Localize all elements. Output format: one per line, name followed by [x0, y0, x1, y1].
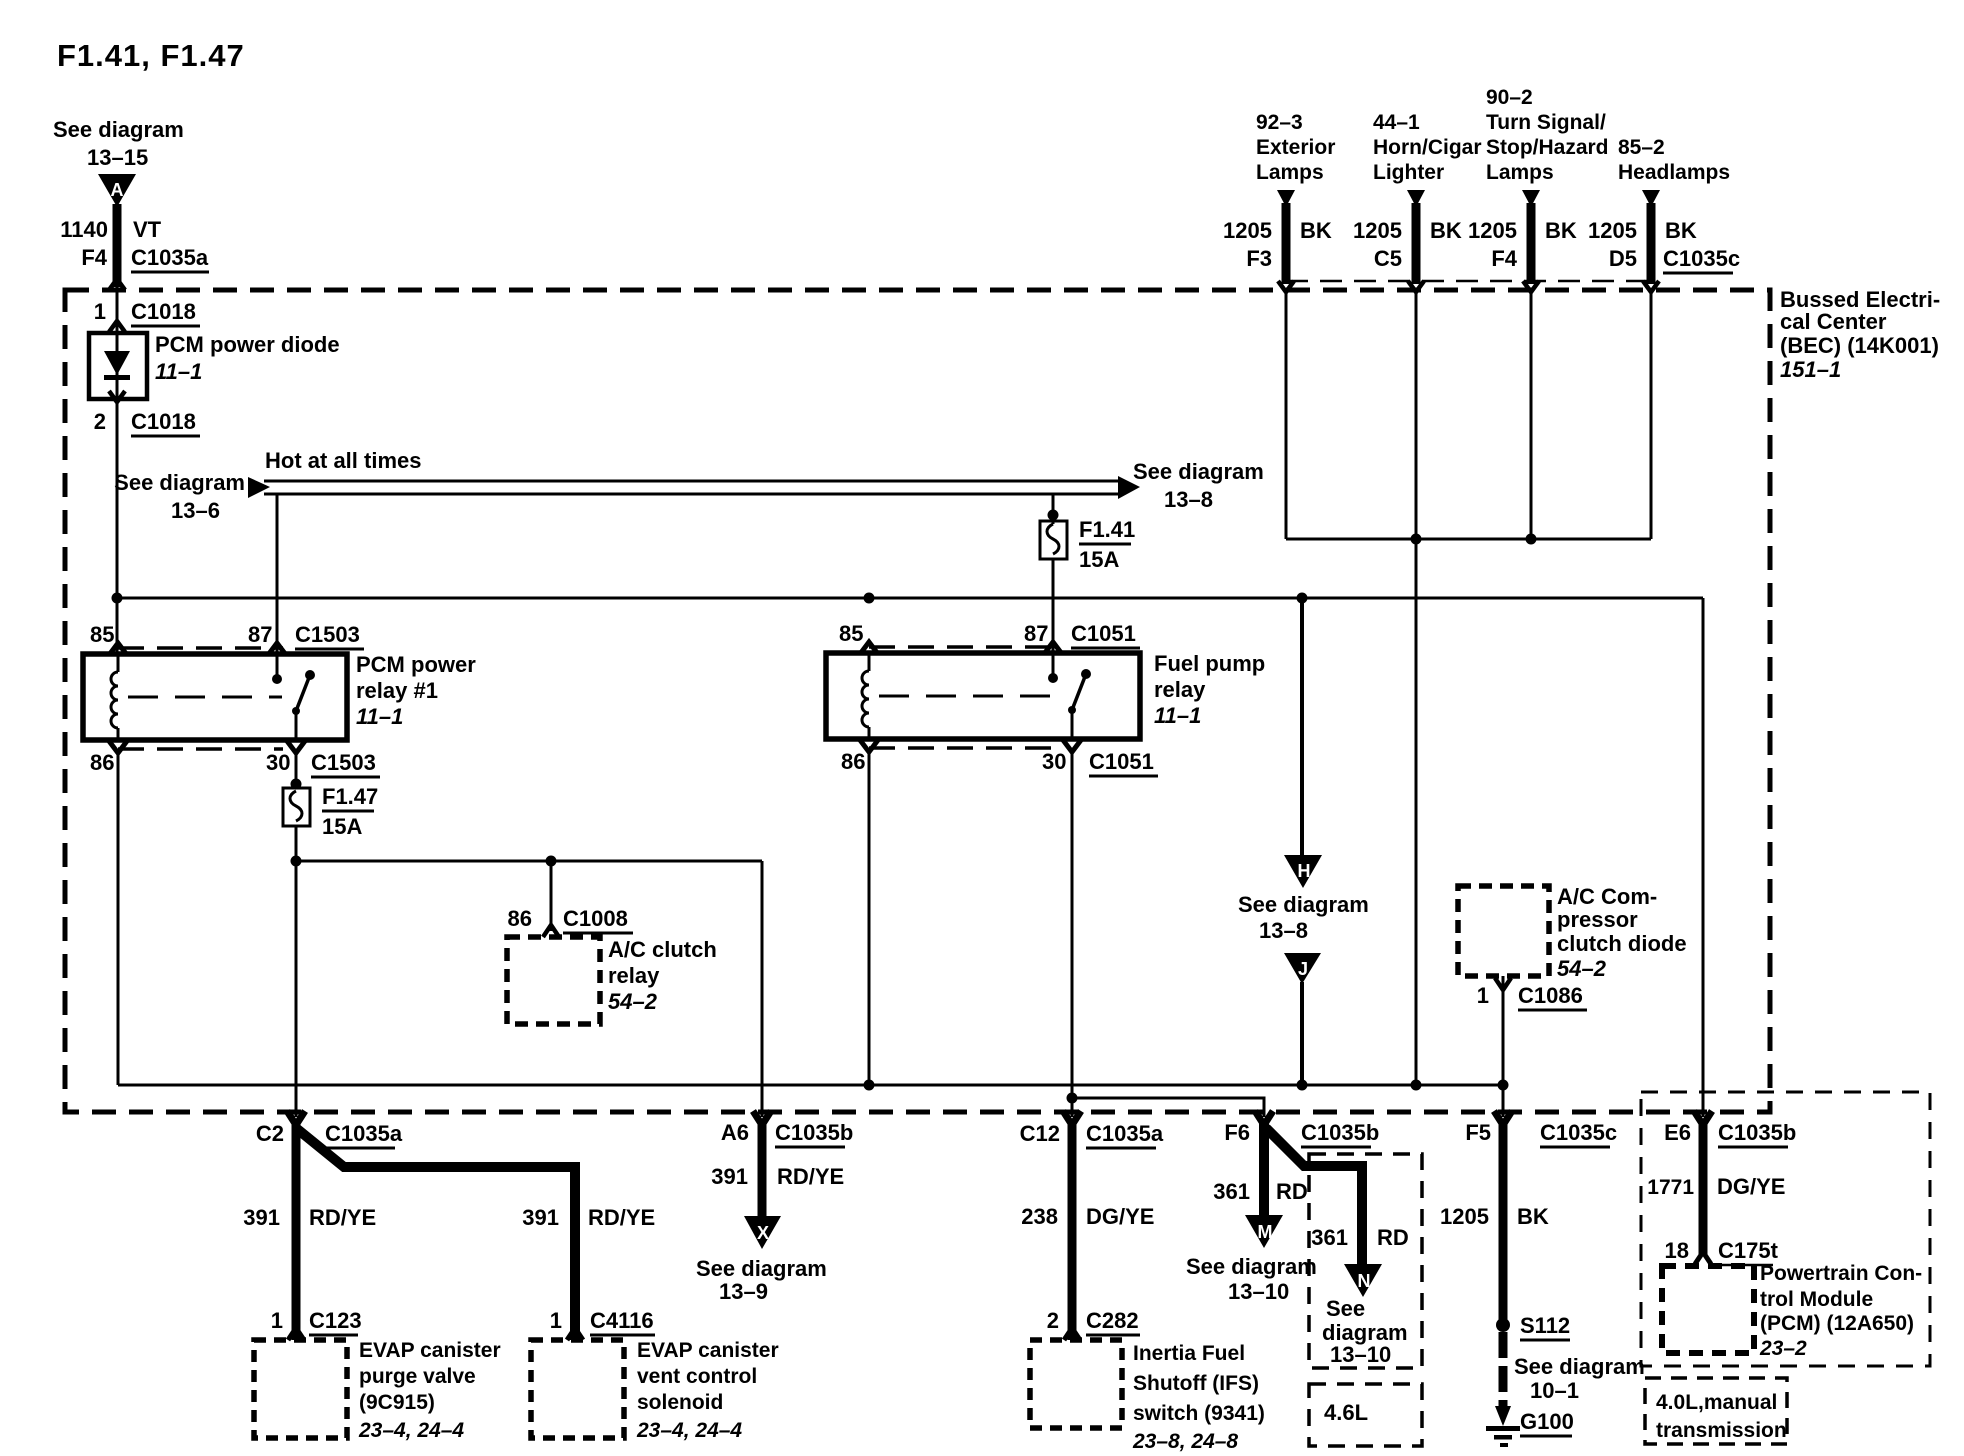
svg-text:F5: F5 — [1465, 1120, 1491, 1145]
connector arrow H — [1284, 855, 1322, 888]
svg-text:(9C915): (9C915) — [359, 1391, 435, 1414]
svg-text:relay: relay — [608, 963, 660, 988]
svg-text:F4: F4 — [81, 245, 107, 270]
relay 87 contact stub — [1052, 653, 1055, 678]
svg-text:391: 391 — [711, 1164, 748, 1189]
svg-text:BK: BK — [1665, 218, 1697, 243]
pin 86 arrow — [109, 741, 127, 753]
svg-text:D5: D5 — [1609, 246, 1637, 271]
svg-text:C1035a: C1035a — [1086, 1121, 1164, 1146]
thick wire C2 down to C123 — [292, 1122, 301, 1340]
svg-text:C5: C5 — [1374, 246, 1402, 271]
svg-text:F1.41: F1.41 — [1079, 517, 1135, 542]
svg-text:23–4, 24–4: 23–4, 24–4 — [636, 1419, 742, 1442]
svg-text:C1018: C1018 — [131, 299, 196, 324]
pin 1 arrow — [109, 321, 125, 332]
pin 87 arrow — [268, 643, 286, 655]
node BK join at feed 3 — [1526, 534, 1537, 545]
svg-text:361: 361 — [1213, 1179, 1250, 1204]
node fuel relay coil tap — [864, 593, 875, 604]
pin 85 arrow — [860, 642, 878, 654]
VPWR corner down to E6 — [1702, 598, 1705, 1117]
svg-text:391: 391 — [243, 1205, 280, 1230]
node junction diode/VPWR line — [112, 593, 123, 604]
thick wire A6 to X — [758, 1122, 767, 1218]
svg-text:relay #1: relay #1 — [356, 678, 438, 703]
node H arrow tap — [1297, 593, 1308, 604]
svg-text:Inertia Fuel: Inertia Fuel — [1133, 1342, 1245, 1365]
svg-text:RD/YE: RD/YE — [309, 1205, 376, 1230]
fuse F1.41 — [1040, 521, 1067, 559]
wire fuel relay 86 to ground line — [868, 752, 871, 1085]
svg-text:See: See — [1326, 1296, 1365, 1321]
A/C clutch relay pin 86 arrow — [543, 925, 559, 937]
VPWR horizontal wire — [117, 597, 1703, 600]
svg-text:switch (9341): switch (9341) — [1133, 1402, 1265, 1425]
svg-text:A: A — [111, 180, 124, 200]
wire BK feed 2 inside BEC down to ground line — [1415, 292, 1418, 1085]
exit arrow C12 — [1063, 1111, 1081, 1125]
svg-text:13–8: 13–8 — [1164, 487, 1213, 512]
svg-text:C282: C282 — [1086, 1308, 1139, 1333]
pin 18 arrow C175t — [1695, 1252, 1711, 1264]
pin 2 arrow C282 — [1064, 1328, 1080, 1340]
svg-text:A/C clutch: A/C clutch — [608, 937, 717, 962]
svg-text:13–6: 13–6 — [171, 498, 220, 523]
svg-text:151–1: 151–1 — [1780, 357, 1841, 382]
svg-text:238: 238 — [1021, 1204, 1058, 1229]
svg-text:H: H — [1298, 861, 1311, 881]
svg-text:C1035c: C1035c — [1540, 1120, 1617, 1145]
svg-text:relay: relay — [1154, 677, 1206, 702]
branch wire to A/C clutch relay and A6 — [296, 860, 762, 863]
svg-text:13–10: 13–10 — [1228, 1279, 1289, 1304]
svg-text:11–1: 11–1 — [1154, 703, 1201, 728]
svg-text:86: 86 — [841, 749, 865, 774]
svg-text:vent control: vent control — [637, 1365, 757, 1388]
svg-text:VT: VT — [133, 217, 162, 242]
svg-text:BK: BK — [1545, 218, 1577, 243]
node J wire on ground line — [1297, 1080, 1308, 1091]
splice S112 — [1496, 1318, 1510, 1332]
svg-text:Stop/Hazard: Stop/Hazard — [1486, 136, 1609, 159]
svg-text:C1018: C1018 — [131, 409, 196, 434]
svg-text:1140: 1140 — [60, 217, 108, 242]
svg-text:C1086: C1086 — [1518, 983, 1583, 1008]
svg-text:11–1: 11–1 — [356, 704, 403, 729]
svg-text:1771: 1771 — [1647, 1176, 1694, 1199]
wire BK feed 1 inside BEC — [1285, 292, 1288, 539]
svg-text:4.6L: 4.6L — [1324, 1400, 1368, 1425]
svg-text:BK: BK — [1430, 218, 1462, 243]
thick wire F6 to M — [1259, 1122, 1269, 1218]
wire 1205 BK #3 — [1522, 190, 1540, 207]
svg-text:85: 85 — [90, 622, 114, 647]
wire 1205 BK #4 — [1642, 190, 1660, 207]
svg-text:1: 1 — [94, 299, 106, 324]
svg-text:F4: F4 — [1491, 246, 1517, 271]
svg-text:(BEC) (14K001): (BEC) (14K001) — [1780, 333, 1939, 358]
svg-text:87: 87 — [1024, 621, 1048, 646]
wire diode to relay 85 — [116, 399, 119, 654]
svg-text:X: X — [757, 1223, 769, 1243]
diode symbol — [116, 333, 119, 399]
svg-text:1: 1 — [1477, 983, 1489, 1008]
wire relay 30 to fuse F1.47 — [295, 753, 298, 788]
hot bus double line — [264, 480, 1120, 483]
pin 30 arrow — [287, 741, 305, 753]
svg-text:M: M — [1258, 1222, 1273, 1242]
fuse F1.47 — [283, 788, 310, 826]
svg-text:30: 30 — [1042, 749, 1066, 774]
svg-text:54–2: 54–2 — [608, 989, 658, 1014]
A/C Compressor clutch diode dashed box — [1458, 886, 1549, 976]
svg-text:EVAP canister: EVAP canister — [637, 1339, 779, 1362]
PCM outer dashed box — [1641, 1092, 1930, 1366]
svg-text:Lamps: Lamps — [1486, 161, 1554, 184]
svg-text:DG/YE: DG/YE — [1717, 1174, 1785, 1199]
svg-text:92–3: 92–3 — [1256, 111, 1303, 134]
relay connector C1503 top dashed line — [118, 646, 283, 650]
svg-text:86: 86 — [90, 750, 114, 775]
svg-text:C1051: C1051 — [1071, 621, 1136, 646]
svg-text:RD: RD — [1276, 1179, 1308, 1204]
wire 1205 BK #1 — [1277, 190, 1295, 207]
svg-text:C123: C123 — [309, 1308, 362, 1333]
connector arrow J — [1284, 953, 1321, 984]
svg-text:PCM power diode: PCM power diode — [155, 332, 340, 357]
wire bus to fuse F1.41 — [1052, 494, 1055, 524]
svg-text:86: 86 — [508, 906, 532, 931]
exit arrow E6 — [1694, 1111, 1712, 1125]
svg-text:C12: C12 — [1020, 1121, 1060, 1146]
pin 30 arrow — [1063, 740, 1081, 752]
svg-text:C1035a: C1035a — [325, 1121, 403, 1146]
svg-text:Horn/Cigar: Horn/Cigar — [1373, 136, 1482, 159]
svg-text:C1008: C1008 — [563, 906, 628, 931]
wire BK joining line — [1286, 538, 1651, 541]
wire fuse F1.47 down to C2 exit — [295, 826, 298, 1117]
svg-text:clutch diode: clutch diode — [1557, 931, 1687, 956]
wire down to A6 exit — [761, 861, 764, 1117]
svg-text:Lighter: Lighter — [1373, 161, 1444, 184]
svg-text:23–4, 24–4: 23–4, 24–4 — [358, 1419, 464, 1442]
wire BK feed 3 inside BEC — [1530, 292, 1533, 539]
EVAP canister vent control solenoid dashed box — [531, 1340, 624, 1438]
svg-text:11–1: 11–1 — [155, 359, 202, 384]
wire J to ground line — [1300, 982, 1304, 1085]
relay coil — [868, 653, 871, 671]
svg-text:BK: BK — [1517, 1204, 1549, 1229]
svg-text:Exterior: Exterior — [1256, 136, 1335, 159]
wire relay 86 to ground line — [117, 753, 120, 1085]
wire fuse F1.41 to fuel pump relay 87 — [1052, 559, 1055, 654]
wire fuel relay 30 down to C12 exit — [1071, 752, 1074, 1117]
thick wire C12 down to C282 — [1068, 1122, 1077, 1340]
svg-text:85–2: 85–2 — [1618, 136, 1665, 159]
svg-text:13–15: 13–15 — [87, 145, 148, 170]
svg-text:1205: 1205 — [1440, 1204, 1489, 1229]
svg-text:See diagram: See diagram — [1186, 1254, 1317, 1279]
svg-text:See diagram: See diagram — [114, 470, 245, 495]
relay connector C1503 bottom dashed line — [118, 747, 283, 751]
svg-text:pressor: pressor — [1557, 907, 1638, 932]
node diode wire on ground line — [1498, 1080, 1509, 1091]
svg-text:Hot at all times: Hot at all times — [265, 448, 421, 473]
svg-text:391: 391 — [522, 1205, 559, 1230]
svg-text:1205: 1205 — [1588, 218, 1637, 243]
ground return horizontal wire — [118, 1084, 1503, 1087]
A/C clutch relay dashed box — [507, 937, 600, 1024]
svg-text:C1051: C1051 — [1089, 749, 1154, 774]
svg-text:transmission: transmission — [1656, 1419, 1787, 1442]
pin 85 arrow — [109, 643, 127, 655]
svg-text:See diagram: See diagram — [696, 1256, 827, 1281]
node BK feed 2 on ground line — [1411, 1080, 1422, 1091]
svg-text:See diagram: See diagram — [53, 117, 184, 142]
svg-text:F1.47: F1.47 — [322, 784, 378, 809]
svg-text:F1.41, F1.47: F1.41, F1.47 — [57, 38, 245, 73]
svg-text:S112: S112 — [1520, 1313, 1570, 1338]
thick wire E6 to PCM — [1699, 1122, 1708, 1256]
relay box R2 — [826, 653, 1140, 739]
exit arrow F5 — [1494, 1111, 1512, 1125]
exit arrow F6 — [1255, 1111, 1273, 1125]
svg-text:15A: 15A — [322, 814, 362, 839]
wire 1140 VT (thick) from A to BEC — [113, 204, 122, 287]
svg-text:A/C Com-: A/C Com- — [1557, 884, 1657, 909]
relay switch arm — [1081, 669, 1091, 679]
svg-text:See diagram: See diagram — [1514, 1354, 1645, 1379]
svg-text:18: 18 — [1665, 1238, 1689, 1263]
relay connector C1051 top dashed line — [869, 645, 1060, 649]
node A/C clutch relay tap — [546, 856, 557, 867]
svg-text:Turn Signal/: Turn Signal/ — [1486, 111, 1606, 134]
connector arrow A — [98, 174, 136, 207]
svg-text:4.0L,manual: 4.0L,manual — [1656, 1391, 1777, 1414]
svg-text:solenoid: solenoid — [637, 1391, 723, 1414]
node fuel relay 86 on ground line — [864, 1080, 875, 1091]
4.0L manual transmission dashed box — [1645, 1378, 1787, 1444]
svg-text:Headlamps: Headlamps — [1618, 161, 1730, 184]
wire tap to F6 exit — [1072, 1098, 1264, 1117]
connector C1035c dashed line across feed wires — [1286, 280, 1655, 283]
BEC dashed border (Bussed Electrical Center) — [65, 290, 1770, 1112]
relay linkage dashed — [128, 696, 282, 699]
wire into diode — [116, 279, 119, 336]
svg-text:F6: F6 — [1224, 1120, 1250, 1145]
connector arrow N — [1344, 1264, 1382, 1297]
svg-text:15A: 15A — [1079, 547, 1119, 572]
wire 1205 BK #2 — [1407, 190, 1425, 207]
svg-text:87: 87 — [248, 622, 272, 647]
svg-text:13–8: 13–8 — [1259, 918, 1308, 943]
relay box R1 — [83, 654, 347, 740]
relay coil — [117, 654, 120, 672]
svg-text:C1035c: C1035c — [1663, 246, 1740, 271]
4.6L dashed box — [1309, 1384, 1422, 1446]
svg-text:23–2: 23–2 — [1759, 1337, 1807, 1360]
node BK join at feed 2 — [1411, 534, 1422, 545]
wire diode to F5 exit — [1502, 976, 1505, 1117]
svg-text:trol Module: trol Module — [1760, 1288, 1873, 1311]
svg-text:C1503: C1503 — [311, 750, 376, 775]
svg-text:N: N — [1358, 1271, 1371, 1291]
svg-text:C1035b: C1035b — [775, 1120, 853, 1145]
svg-text:10–1: 10–1 — [1530, 1378, 1579, 1403]
branch to vent solenoid: diagonal — [296, 1128, 575, 1340]
wire BK feed 4 inside BEC — [1650, 292, 1653, 539]
svg-text:EVAP canister: EVAP canister — [359, 1339, 501, 1362]
svg-text:C2: C2 — [256, 1121, 284, 1146]
svg-text:C175t: C175t — [1718, 1238, 1779, 1263]
svg-text:cal Center: cal Center — [1780, 309, 1887, 334]
svg-text:RD/YE: RD/YE — [588, 1205, 655, 1230]
exit arrow C2 — [287, 1111, 305, 1125]
relay 87 contact stub — [276, 654, 279, 679]
wire VPWR to H arrow — [1300, 598, 1304, 855]
svg-text:13–9: 13–9 — [719, 1279, 768, 1304]
svg-text:2: 2 — [1047, 1308, 1059, 1333]
svg-text:F3: F3 — [1246, 246, 1272, 271]
Inertia Fuel Shutoff switch dashed box — [1030, 1340, 1122, 1428]
svg-text:G100: G100 — [1520, 1409, 1574, 1434]
pin 1 arrow C4116 — [567, 1328, 583, 1340]
PCM dashed box — [1662, 1266, 1754, 1353]
pin 86 arrow — [860, 740, 878, 752]
svg-text:85: 85 — [839, 621, 863, 646]
svg-text:Shutoff (IFS): Shutoff (IFS) — [1133, 1372, 1259, 1395]
wire to A/C clutch relay 86 — [550, 861, 553, 931]
node F6 tap on pin30 wire — [1067, 1093, 1078, 1104]
EVAP canister purge valve dashed box — [254, 1340, 347, 1438]
relay switch arm — [305, 670, 315, 680]
svg-text:90–2: 90–2 — [1486, 86, 1533, 109]
svg-text:See diagram: See diagram — [1238, 892, 1369, 917]
svg-text:BK: BK — [1300, 218, 1332, 243]
N branch dashed box — [1309, 1154, 1422, 1368]
svg-text:C4116: C4116 — [590, 1308, 654, 1333]
svg-text:1205: 1205 — [1468, 218, 1517, 243]
svg-text:C1503: C1503 — [295, 622, 360, 647]
svg-text:Fuel pump: Fuel pump — [1154, 651, 1265, 676]
svg-text:13–10: 13–10 — [1330, 1342, 1391, 1367]
svg-text:A6: A6 — [721, 1120, 749, 1145]
svg-text:Powertrain Con-: Powertrain Con- — [1760, 1262, 1922, 1285]
svg-text:RD/YE: RD/YE — [777, 1164, 844, 1189]
svg-text:purge valve: purge valve — [359, 1365, 476, 1388]
svg-text:1205: 1205 — [1223, 218, 1272, 243]
svg-text:PCM power: PCM power — [356, 652, 476, 677]
svg-text:23–8, 24–8: 23–8, 24–8 — [1132, 1430, 1238, 1453]
connector arrow X — [744, 1216, 781, 1249]
relay connector C1051 bottom dashed line — [869, 746, 1060, 750]
svg-text:54–2: 54–2 — [1557, 956, 1607, 981]
pin 2 arrow — [109, 391, 125, 402]
svg-text:1205: 1205 — [1353, 218, 1402, 243]
svg-text:E6: E6 — [1664, 1120, 1691, 1145]
thick wire F5 to S112 — [1499, 1122, 1508, 1325]
svg-text:J: J — [1298, 959, 1308, 979]
pin 1 arrow C123 — [288, 1328, 304, 1340]
pin 87 arrow — [1044, 642, 1062, 654]
svg-text:C1035a: C1035a — [131, 245, 209, 270]
ground G100 symbol — [1495, 1406, 1511, 1426]
wire bus to PCM relay 87 — [276, 494, 279, 654]
svg-text:44–1: 44–1 — [1373, 111, 1420, 134]
exit arrow A6 — [753, 1111, 771, 1125]
svg-text:30: 30 — [266, 750, 290, 775]
svg-text:RD: RD — [1377, 1225, 1409, 1250]
relay linkage dashed — [879, 695, 1056, 698]
entry arrow into BEC at C1035a — [109, 279, 125, 290]
svg-text:2: 2 — [94, 409, 106, 434]
svg-text:(PCM) (12A650): (PCM) (12A650) — [1760, 1312, 1914, 1335]
svg-text:C1035b: C1035b — [1718, 1120, 1796, 1145]
svg-text:1: 1 — [550, 1308, 562, 1333]
node fuse output — [291, 856, 302, 867]
wire S112 to G100 (dashed thick) — [1499, 1332, 1508, 1408]
svg-text:1: 1 — [271, 1308, 283, 1333]
branch diagonal to N — [1266, 1128, 1362, 1266]
connector arrow M — [1245, 1215, 1283, 1248]
svg-text:See diagram: See diagram — [1133, 459, 1264, 484]
svg-text:DG/YE: DG/YE — [1086, 1204, 1154, 1229]
PCM power diode box — [89, 333, 147, 399]
diode pin 1 arrow — [1495, 978, 1511, 990]
svg-text:Lamps: Lamps — [1256, 161, 1324, 184]
svg-text:361: 361 — [1311, 1225, 1348, 1250]
svg-text:C1035b: C1035b — [1301, 1120, 1379, 1145]
